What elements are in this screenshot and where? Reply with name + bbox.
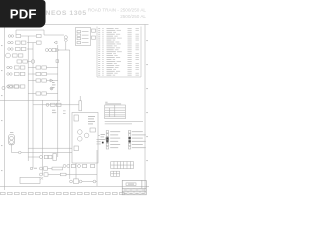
svg-text:PDF: PDF [10, 7, 37, 22]
svg-text:ROAD TRAIN - 2500/250 AL: ROAD TRAIN - 2500/250 AL [88, 8, 147, 13]
svg-text:NEOS 1305: NEOS 1305 [46, 10, 87, 17]
svg-text:2500/250 AL: 2500/250 AL [120, 14, 146, 19]
